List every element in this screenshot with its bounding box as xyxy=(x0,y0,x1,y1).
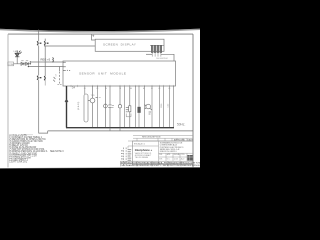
svg-text:Interphone +: Interphone + xyxy=(135,148,153,152)
wire vertical bus x36 xyxy=(38,45,40,75)
resistor R22 xyxy=(129,86,131,128)
connector pin J2a xyxy=(37,76,41,80)
svg-text:APR.: APR. xyxy=(167,153,171,156)
title block left top line xyxy=(133,145,159,147)
capacitor C9 xyxy=(108,86,111,128)
label C9 marks xyxy=(112,105,114,108)
svg-text:REG +5: REG +5 xyxy=(41,58,51,62)
company address lines xyxy=(135,152,152,159)
svg-text:50Hz.: 50Hz. xyxy=(177,122,185,126)
dark stamp cell xyxy=(187,155,193,161)
svg-text:SENSOR UNIT MODULE: SENSOR UNIT MODULE xyxy=(79,71,126,75)
connector pin J1b xyxy=(44,39,48,46)
wire to display box left xyxy=(44,45,95,47)
revision row cells xyxy=(128,138,193,141)
wire1 descent to bus2 xyxy=(39,80,48,134)
wire x163.5 xyxy=(162,86,164,128)
dense row separators xyxy=(137,161,181,166)
screen display box U2 xyxy=(95,39,164,51)
wire vertical bus x44 xyxy=(44,45,46,76)
sensor unit module box U1 xyxy=(63,61,176,86)
top band soft edge xyxy=(0,29,200,32)
svg-text:DIBUJO N. 04822-1: DIBUJO N. 04822-1 xyxy=(160,151,177,153)
wire LED down xyxy=(16,57,18,64)
transistor Q1 xyxy=(88,86,95,128)
diode D2 xyxy=(26,62,29,65)
top black band xyxy=(0,0,200,31)
label R21 marks xyxy=(126,107,129,112)
right sub-table xyxy=(159,153,194,161)
wire x174 right drop xyxy=(173,86,175,128)
white schematic sheet xyxy=(0,26,200,170)
svg-text:THIS DRAWING IS RESERVED PROPE: THIS DRAWING IS RESERVED PROPERTY - REPR… xyxy=(121,164,200,167)
wire stubs shield xyxy=(84,86,86,94)
wire to display box top xyxy=(92,34,96,40)
ground bus 1 xyxy=(66,127,174,129)
revision strip entries xyxy=(128,149,132,160)
wire x152 xyxy=(151,86,153,128)
node diamond on thick wire xyxy=(65,99,68,103)
wire x97.5 xyxy=(97,86,99,128)
svg-text:TEL 051 389084: TEL 051 389084 xyxy=(135,157,148,159)
svg-text:COD.: COD. xyxy=(181,154,186,156)
wire x135.5 xyxy=(135,86,137,128)
bottom dense row divider xyxy=(121,160,194,162)
revision strip dashed edge xyxy=(125,148,127,167)
LDR bottom marks xyxy=(57,83,61,86)
electrolytic capacitor C10 dark body xyxy=(138,86,141,128)
bus link x120 xyxy=(119,128,121,131)
wire x124.3 xyxy=(123,86,125,128)
wire from top frame down at x36 xyxy=(38,30,40,42)
bracket under R22 xyxy=(126,114,131,117)
svg-text:DIS.: DIS. xyxy=(159,154,163,156)
label P3 marks xyxy=(96,96,101,99)
connector pin J1a xyxy=(37,41,41,45)
bottom band soft edge xyxy=(0,167,200,169)
revision row text xyxy=(142,137,193,142)
svg-text:G.C.: G.C. xyxy=(167,158,171,160)
sub-table labels xyxy=(159,153,185,156)
svg-text:SEE NOTE 3: SEE NOTE 3 xyxy=(50,151,64,153)
svg-text:12-06: 12-06 xyxy=(174,158,178,160)
wire x144 xyxy=(144,86,146,128)
svg-text:SU-4022-M: SU-4022-M xyxy=(156,58,167,60)
bottom black band xyxy=(0,168,200,200)
title area upper lines xyxy=(133,135,193,137)
photo sensor LDR1 xyxy=(53,67,59,84)
wire J2b tail xyxy=(44,80,46,86)
connector pin J2b xyxy=(44,76,45,80)
small ref box xyxy=(128,146,133,149)
wire connector to right drop xyxy=(161,54,174,61)
sub-table row2 text xyxy=(159,157,184,160)
svg-text:FECHA: FECHA xyxy=(174,153,181,156)
node dot B xyxy=(30,61,31,62)
wire node to module upper xyxy=(30,61,63,63)
revision strip dashed edge 2 xyxy=(123,148,125,167)
drawing frame border xyxy=(8,34,193,167)
shield loop rectangle xyxy=(84,94,88,122)
lamp LP1 xyxy=(118,86,121,128)
bus link x109.5 xyxy=(109,128,111,131)
svg-text:13) FIT LINK LK1: 13) FIT LINK LK1 xyxy=(9,161,28,163)
pin ticks module left edge xyxy=(63,62,66,70)
varistor RV1 xyxy=(104,86,108,128)
page background band xyxy=(0,0,200,200)
node dot A xyxy=(30,63,31,64)
connector CN1 hatched pins xyxy=(150,45,164,56)
svg-text:A-22: A-22 xyxy=(181,157,185,160)
bottom dense row divider 2 xyxy=(121,163,194,165)
COM terminal box xyxy=(8,62,14,66)
svg-text:(R.A 5V): (R.A 5V) xyxy=(77,101,80,110)
notes list xyxy=(9,134,64,164)
transistor Q2 xyxy=(145,104,153,110)
wire COM to node xyxy=(14,63,30,65)
revision number marks xyxy=(121,150,122,159)
LED D3 xyxy=(15,50,22,56)
label Q2 marks xyxy=(149,112,151,115)
resistor R26 wire xyxy=(158,86,160,128)
thick wire x66.5 xyxy=(66,86,68,128)
pin ticks module bottom edge xyxy=(71,85,174,87)
diode D1 xyxy=(21,62,24,65)
ground bus 2 xyxy=(48,130,193,132)
svg-text:COM: COM xyxy=(8,64,13,66)
svg-text:SCREEN DISPLAY: SCREEN DISPLAY xyxy=(103,43,136,47)
svg-text:D4: D4 xyxy=(72,86,76,90)
title block outer box xyxy=(133,141,194,165)
title block divider vertical xyxy=(158,141,160,165)
svg-text:REV DESCRIPTION: REV DESCRIPTION xyxy=(142,137,161,139)
right cell text lines xyxy=(160,142,184,154)
smudge mark left xyxy=(24,134,33,136)
wire connector left stub xyxy=(146,53,152,55)
capacitor C12 wire xyxy=(168,86,170,128)
node dot C xyxy=(28,66,29,67)
pin number dots below edge xyxy=(84,87,170,90)
svg-text:ESCALA 1:1: ESCALA 1:1 xyxy=(134,143,146,146)
wire node to module lower xyxy=(28,66,63,68)
label D1 D2 xyxy=(21,59,28,62)
svg-text:M.R.: M.R. xyxy=(159,158,163,160)
inductor L1 xyxy=(52,58,53,62)
node T tick xyxy=(92,35,94,37)
